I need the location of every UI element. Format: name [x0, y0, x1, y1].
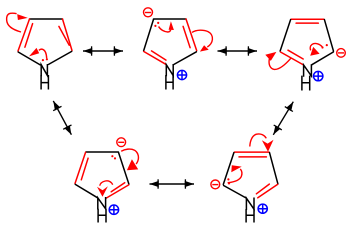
S4 bond N-C2: [75, 184, 97, 197]
S4 letter H: [98, 210, 106, 222]
resonance arrow between structure 1 and 2: [83, 46, 123, 55]
S3 bond C4-C5: [324, 20, 333, 52]
S5 bond C2-C3: [223, 153, 234, 185]
S1 bond N-C2: [18, 52, 40, 65]
resonance arrow between structure 1 and 4 (diagonal): [53, 101, 71, 135]
S1 bond N-C5: [49, 51, 72, 64]
S1 double bond C4=C5 inner: [59, 26, 69, 45]
S5 double bond N=C5 inner: [256, 184, 269, 194]
resonance arrow between structure 2 and 3: [218, 46, 258, 55]
S4 minus charge symbol at C4: [117, 138, 126, 147]
S3 double bond C3=C4 inner: [296, 22, 318, 24]
S3 letter H: [302, 76, 310, 89]
S5 letter H: [246, 210, 254, 222]
S5 curved arrow from C3=C4 pi to C4: [250, 134, 274, 152]
S4 letter N: [98, 198, 106, 209]
S5 curved arrow from C2 lone pair to C2-C3 bond: [228, 165, 242, 183]
S4 double bond C2=C3 inner: [81, 158, 88, 180]
S1 bond C3-C4: [30, 18, 63, 20]
S4 lone pair dots on C4: [111, 155, 116, 159]
S2 minus charge symbol at C3: [144, 8, 153, 17]
structure 2: pyrrole resonance form, carbanion at C3, N+=C2: [144, 19, 197, 64]
S1 letter N: [41, 65, 47, 76]
structure 3: pyrrole resonance form, carbanion at C5, N+=C2, C3=C4: [280, 19, 333, 65]
S2 double bond C4=C5 main: [186, 19, 197, 51]
S2 double bond N=C2 main: [144, 52, 166, 65]
S3 plus charge symbol at N: [314, 71, 323, 80]
S5 double bond C3=C4 inner: [239, 156, 266, 158]
S1 curved arrow from C2=C3 pi to C3: [7, 13, 28, 32]
S5 bond N-C2: [224, 186, 246, 198]
S5 double bond N=C5 main: [258, 184, 278, 197]
S1 double bond C4=C5 main: [63, 19, 73, 51]
S4 double bond N=C5 main: [106, 185, 129, 198]
S5 minus charge symbol at C2: [211, 180, 220, 189]
S4 plus charge symbol at N: [109, 205, 118, 214]
resonance arrow between structure 3 and 5 (diagonal): [273, 102, 293, 135]
S3 lone pair dots on C5: [321, 44, 328, 49]
S5 bond C4-C5: [270, 153, 278, 184]
S2 letter N: [166, 65, 173, 76]
structure 5: pyrrole resonance form, carbanion at C2, N+=C5, C3=C4: [223, 152, 278, 198]
S4 bond C3-C4: [86, 151, 119, 153]
S4 double bond C2=C3 main: [75, 152, 86, 183]
S2 double bond N=C2 inner: [152, 51, 167, 60]
S2 curved arrow from C3 lone pair to C3-C4 bond: [159, 21, 174, 32]
S3 double bond C3=C4 main: [291, 18, 324, 20]
S2 lone pair dots on C3: [154, 22, 159, 27]
S4 double bond N=C5 inner: [111, 183, 125, 192]
S2 bond N-C5: [174, 52, 196, 65]
S3 double bond N=C2 inner: [288, 50, 303, 59]
S1 lone pair dots on N: [42, 58, 48, 61]
S1 curved arrow from N lone pair to N-C2 bond: [29, 48, 47, 59]
S2 double bond C4=C5 inner: [183, 26, 190, 47]
S2 bond C3-C4: [154, 18, 187, 20]
S1 double bond C2=C3 inner: [25, 24, 33, 48]
S1 letter H: [41, 76, 48, 89]
S3 letter N: [304, 65, 312, 76]
S5 letter N: [246, 198, 254, 209]
structure 1: neutral pyrrole ring: [18, 19, 72, 65]
S3 double bond N=C2 main: [281, 52, 304, 65]
S5 lone pair dots on C2: [227, 178, 230, 184]
S5 plus charge symbol at N: [258, 204, 267, 213]
S4 curved arrow from C4 lone pair to C4-C5 bond: [121, 149, 138, 170]
S4 bond C4-C5: [119, 152, 129, 184]
S2 letter H: [166, 76, 173, 89]
S1 double bond C2=C3 main: [18, 19, 30, 51]
S2 bond C3-C2: [144, 19, 154, 51]
S3 curved arrow from C5 lone pair to C5-N bond: [310, 43, 322, 55]
S3 bond N-C5: [312, 52, 333, 65]
structure 4: pyrrole resonance form, carbanion at C4, N+=C5, C2=C3: [75, 152, 129, 198]
S3 curved arrow from N=C2 pi to C2: [265, 52, 291, 70]
resonance arrow between structure 4 and 5: [150, 179, 195, 188]
S5 double bond C3=C4 main: [234, 151, 269, 153]
S2 plus charge symbol at N: [177, 70, 186, 79]
S2 curved arrow from C4=C5 pi to C5: [192, 30, 212, 51]
S4 curved arrow from N=C5 pi to N: [97, 181, 113, 197]
S3 bond C2-C3: [280, 20, 291, 51]
S3 minus charge symbol at C5: [337, 49, 346, 58]
